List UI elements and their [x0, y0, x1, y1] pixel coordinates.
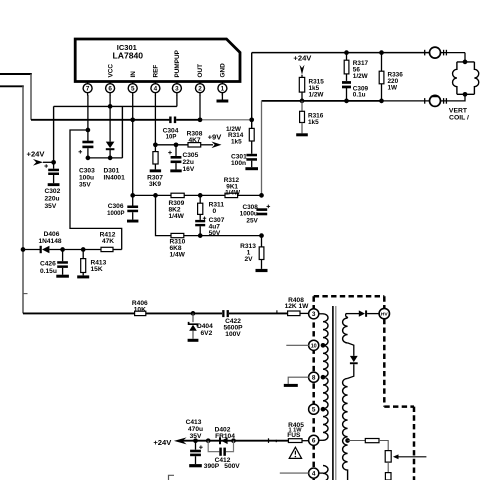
svg-text:0.1u: 0.1u — [353, 92, 366, 99]
svg-text:2: 2 — [198, 85, 202, 92]
svg-text:47K: 47K — [102, 238, 114, 245]
svg-text:1/2W: 1/2W — [353, 73, 369, 80]
svg-text:1/4W: 1/4W — [170, 252, 186, 259]
svg-text:1/2W: 1/2W — [309, 92, 325, 99]
svg-text:+9V: +9V — [208, 133, 223, 142]
svg-text:3: 3 — [175, 85, 179, 92]
svg-text:COIL /: COIL / — [449, 115, 469, 122]
svg-text:100V: 100V — [225, 331, 241, 338]
svg-text:0.15u: 0.15u — [40, 268, 57, 275]
svg-text:500V: 500V — [224, 463, 240, 470]
svg-text:PUMPUP: PUMPUP — [174, 49, 181, 77]
svg-text:OUT: OUT — [197, 64, 204, 78]
svg-text:GND: GND — [220, 63, 227, 78]
svg-text:6: 6 — [108, 85, 112, 92]
svg-text:1/4W: 1/4W — [225, 190, 241, 197]
svg-text:220u: 220u — [45, 195, 60, 202]
svg-text:7: 7 — [86, 85, 90, 92]
svg-text:10: 10 — [311, 344, 317, 350]
svg-text:1k5: 1k5 — [308, 119, 319, 126]
svg-text:LA7840: LA7840 — [113, 51, 144, 61]
svg-text:4: 4 — [154, 85, 158, 92]
svg-text:C302: C302 — [45, 188, 61, 195]
svg-text:D301: D301 — [104, 168, 120, 175]
svg-text:16V: 16V — [183, 166, 195, 173]
svg-text:2V: 2V — [244, 256, 253, 263]
svg-text:6V2: 6V2 — [201, 330, 213, 337]
svg-text:10P: 10P — [166, 134, 177, 140]
svg-text:FR104: FR104 — [215, 433, 235, 440]
svg-text:IN: IN — [130, 71, 137, 78]
svg-text:+24V: +24V — [293, 53, 312, 62]
svg-text:35V: 35V — [190, 433, 202, 440]
svg-text:C426: C426 — [40, 261, 56, 268]
svg-text:1W: 1W — [388, 85, 399, 92]
svg-text:IN4001: IN4001 — [104, 175, 126, 182]
svg-text:50V: 50V — [209, 230, 221, 237]
svg-text:5: 5 — [131, 85, 135, 92]
svg-text:3: 3 — [312, 311, 316, 318]
svg-text:C305: C305 — [183, 152, 199, 159]
svg-text:15K: 15K — [91, 266, 103, 273]
svg-text:1k5: 1k5 — [231, 138, 242, 145]
svg-text:4K7: 4K7 — [188, 137, 200, 144]
svg-text:35V: 35V — [79, 182, 91, 189]
svg-text:12K 1W: 12K 1W — [285, 303, 310, 310]
svg-text:390P: 390P — [204, 463, 220, 470]
svg-text:0: 0 — [213, 208, 217, 215]
svg-text:35V: 35V — [45, 203, 57, 210]
svg-text:1000P: 1000P — [107, 211, 124, 217]
svg-text:VERT: VERT — [449, 107, 468, 114]
svg-text:VCC: VCC — [107, 64, 114, 78]
svg-text:1/4W: 1/4W — [169, 213, 185, 220]
svg-text:REF: REF — [153, 65, 160, 78]
svg-text:1: 1 — [221, 85, 225, 92]
svg-text:100u: 100u — [79, 175, 94, 182]
svg-text:22u: 22u — [183, 159, 194, 166]
svg-text:5: 5 — [312, 407, 316, 414]
svg-text:10K: 10K — [134, 307, 146, 314]
svg-text:+24V: +24V — [27, 149, 46, 158]
svg-text:C306: C306 — [108, 203, 124, 210]
svg-text:25V: 25V — [246, 217, 258, 224]
svg-text:1N4148: 1N4148 — [38, 238, 61, 245]
svg-text:C413: C413 — [186, 419, 202, 426]
svg-text:R311: R311 — [209, 201, 225, 208]
svg-text:+24V: +24V — [153, 438, 172, 447]
svg-text:HV: HV — [381, 312, 389, 318]
svg-text:FUS: FUS — [287, 432, 301, 439]
svg-text:4: 4 — [312, 470, 316, 477]
svg-text:6: 6 — [312, 438, 316, 445]
svg-text:C303: C303 — [79, 168, 95, 175]
svg-text:3K9: 3K9 — [149, 181, 161, 188]
svg-text:8: 8 — [312, 375, 316, 382]
svg-text:100n: 100n — [231, 160, 246, 167]
